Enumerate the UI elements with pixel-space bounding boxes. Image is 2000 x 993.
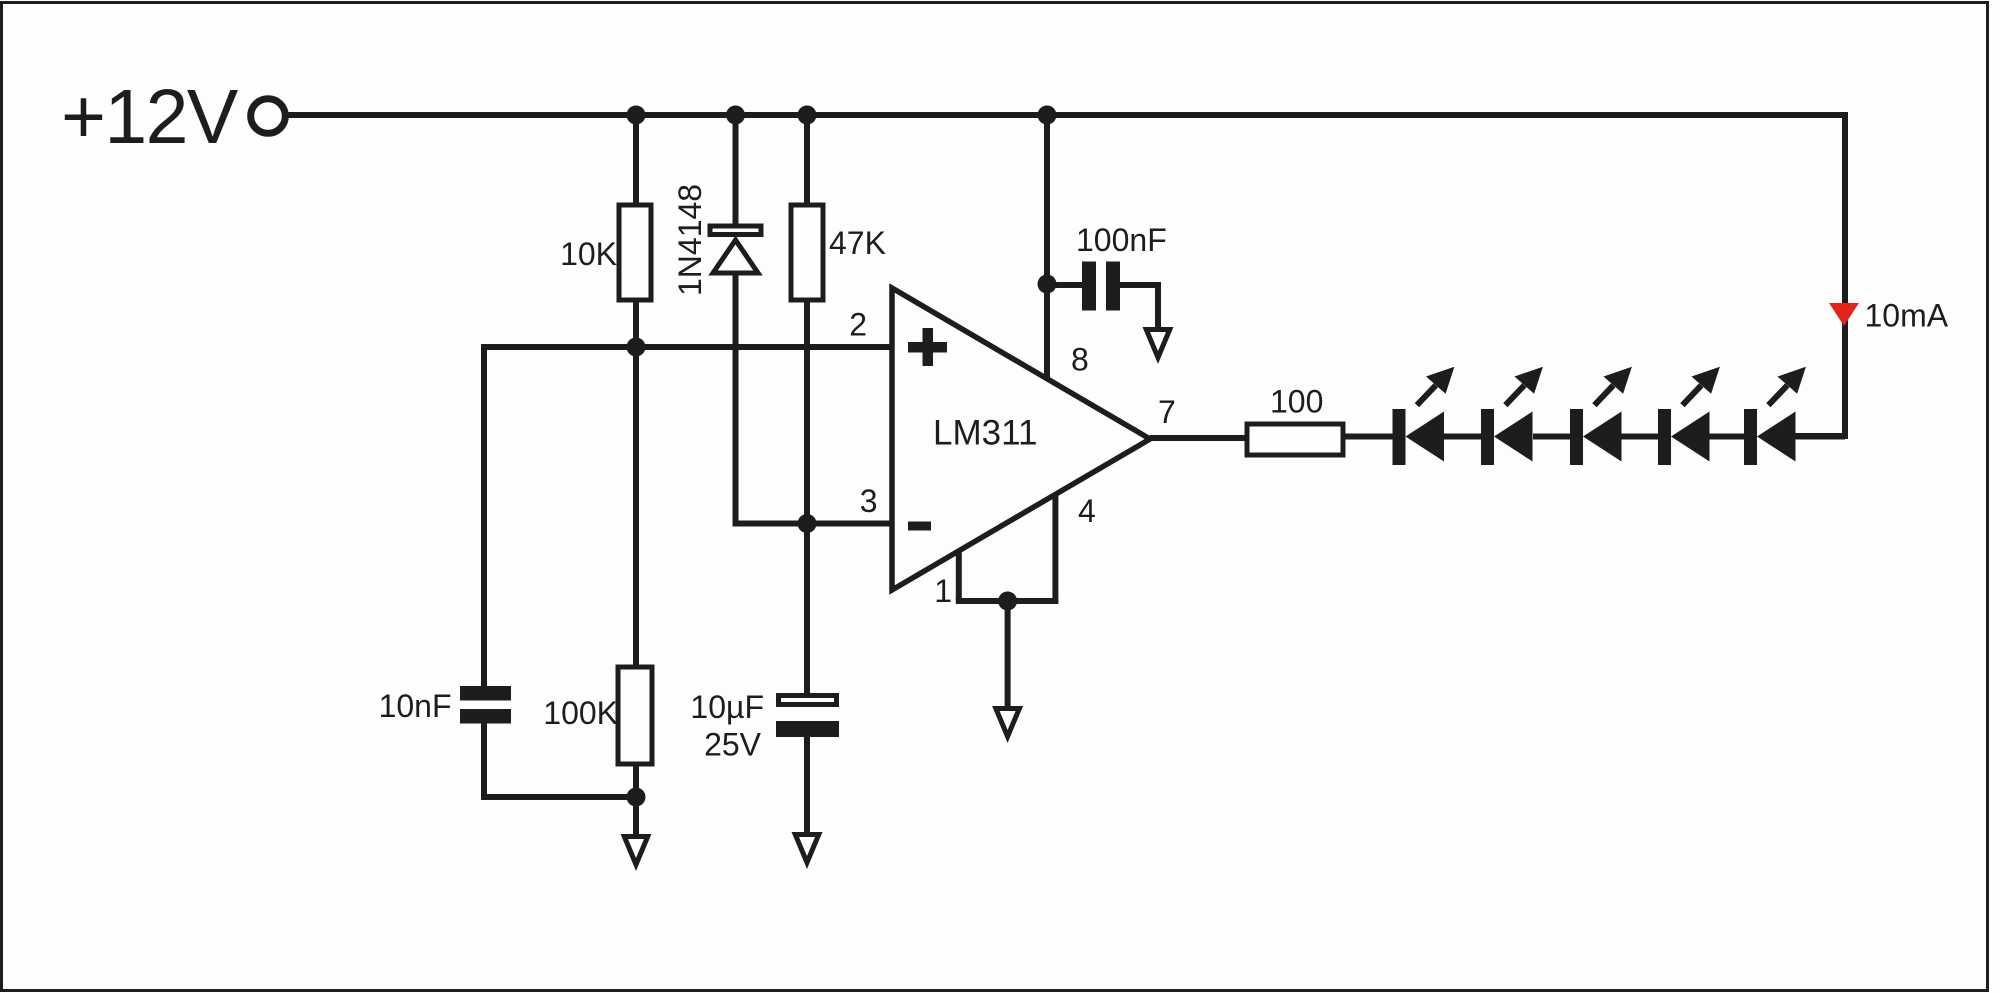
svg-text:7: 7 xyxy=(1158,394,1176,430)
svg-text:100K: 100K xyxy=(543,695,618,731)
svg-text:10nF: 10nF xyxy=(379,688,452,724)
svg-text:+12V: +12V xyxy=(61,74,239,160)
svg-text:10mA: 10mA xyxy=(1865,298,1949,334)
svg-text:2: 2 xyxy=(849,307,867,343)
svg-text:100: 100 xyxy=(1270,384,1323,420)
svg-text:8: 8 xyxy=(1071,342,1089,378)
svg-text:10µF: 10µF xyxy=(690,689,764,725)
svg-text:25V: 25V xyxy=(704,727,762,763)
svg-text:3: 3 xyxy=(860,483,878,519)
svg-text:100nF: 100nF xyxy=(1076,222,1167,258)
svg-text:47K: 47K xyxy=(829,225,886,261)
svg-text:1N4148: 1N4148 xyxy=(672,184,708,296)
svg-text:10K: 10K xyxy=(560,236,617,272)
svg-text:4: 4 xyxy=(1078,493,1096,529)
svg-text:1: 1 xyxy=(934,573,952,609)
svg-text:LM311: LM311 xyxy=(933,414,1037,453)
